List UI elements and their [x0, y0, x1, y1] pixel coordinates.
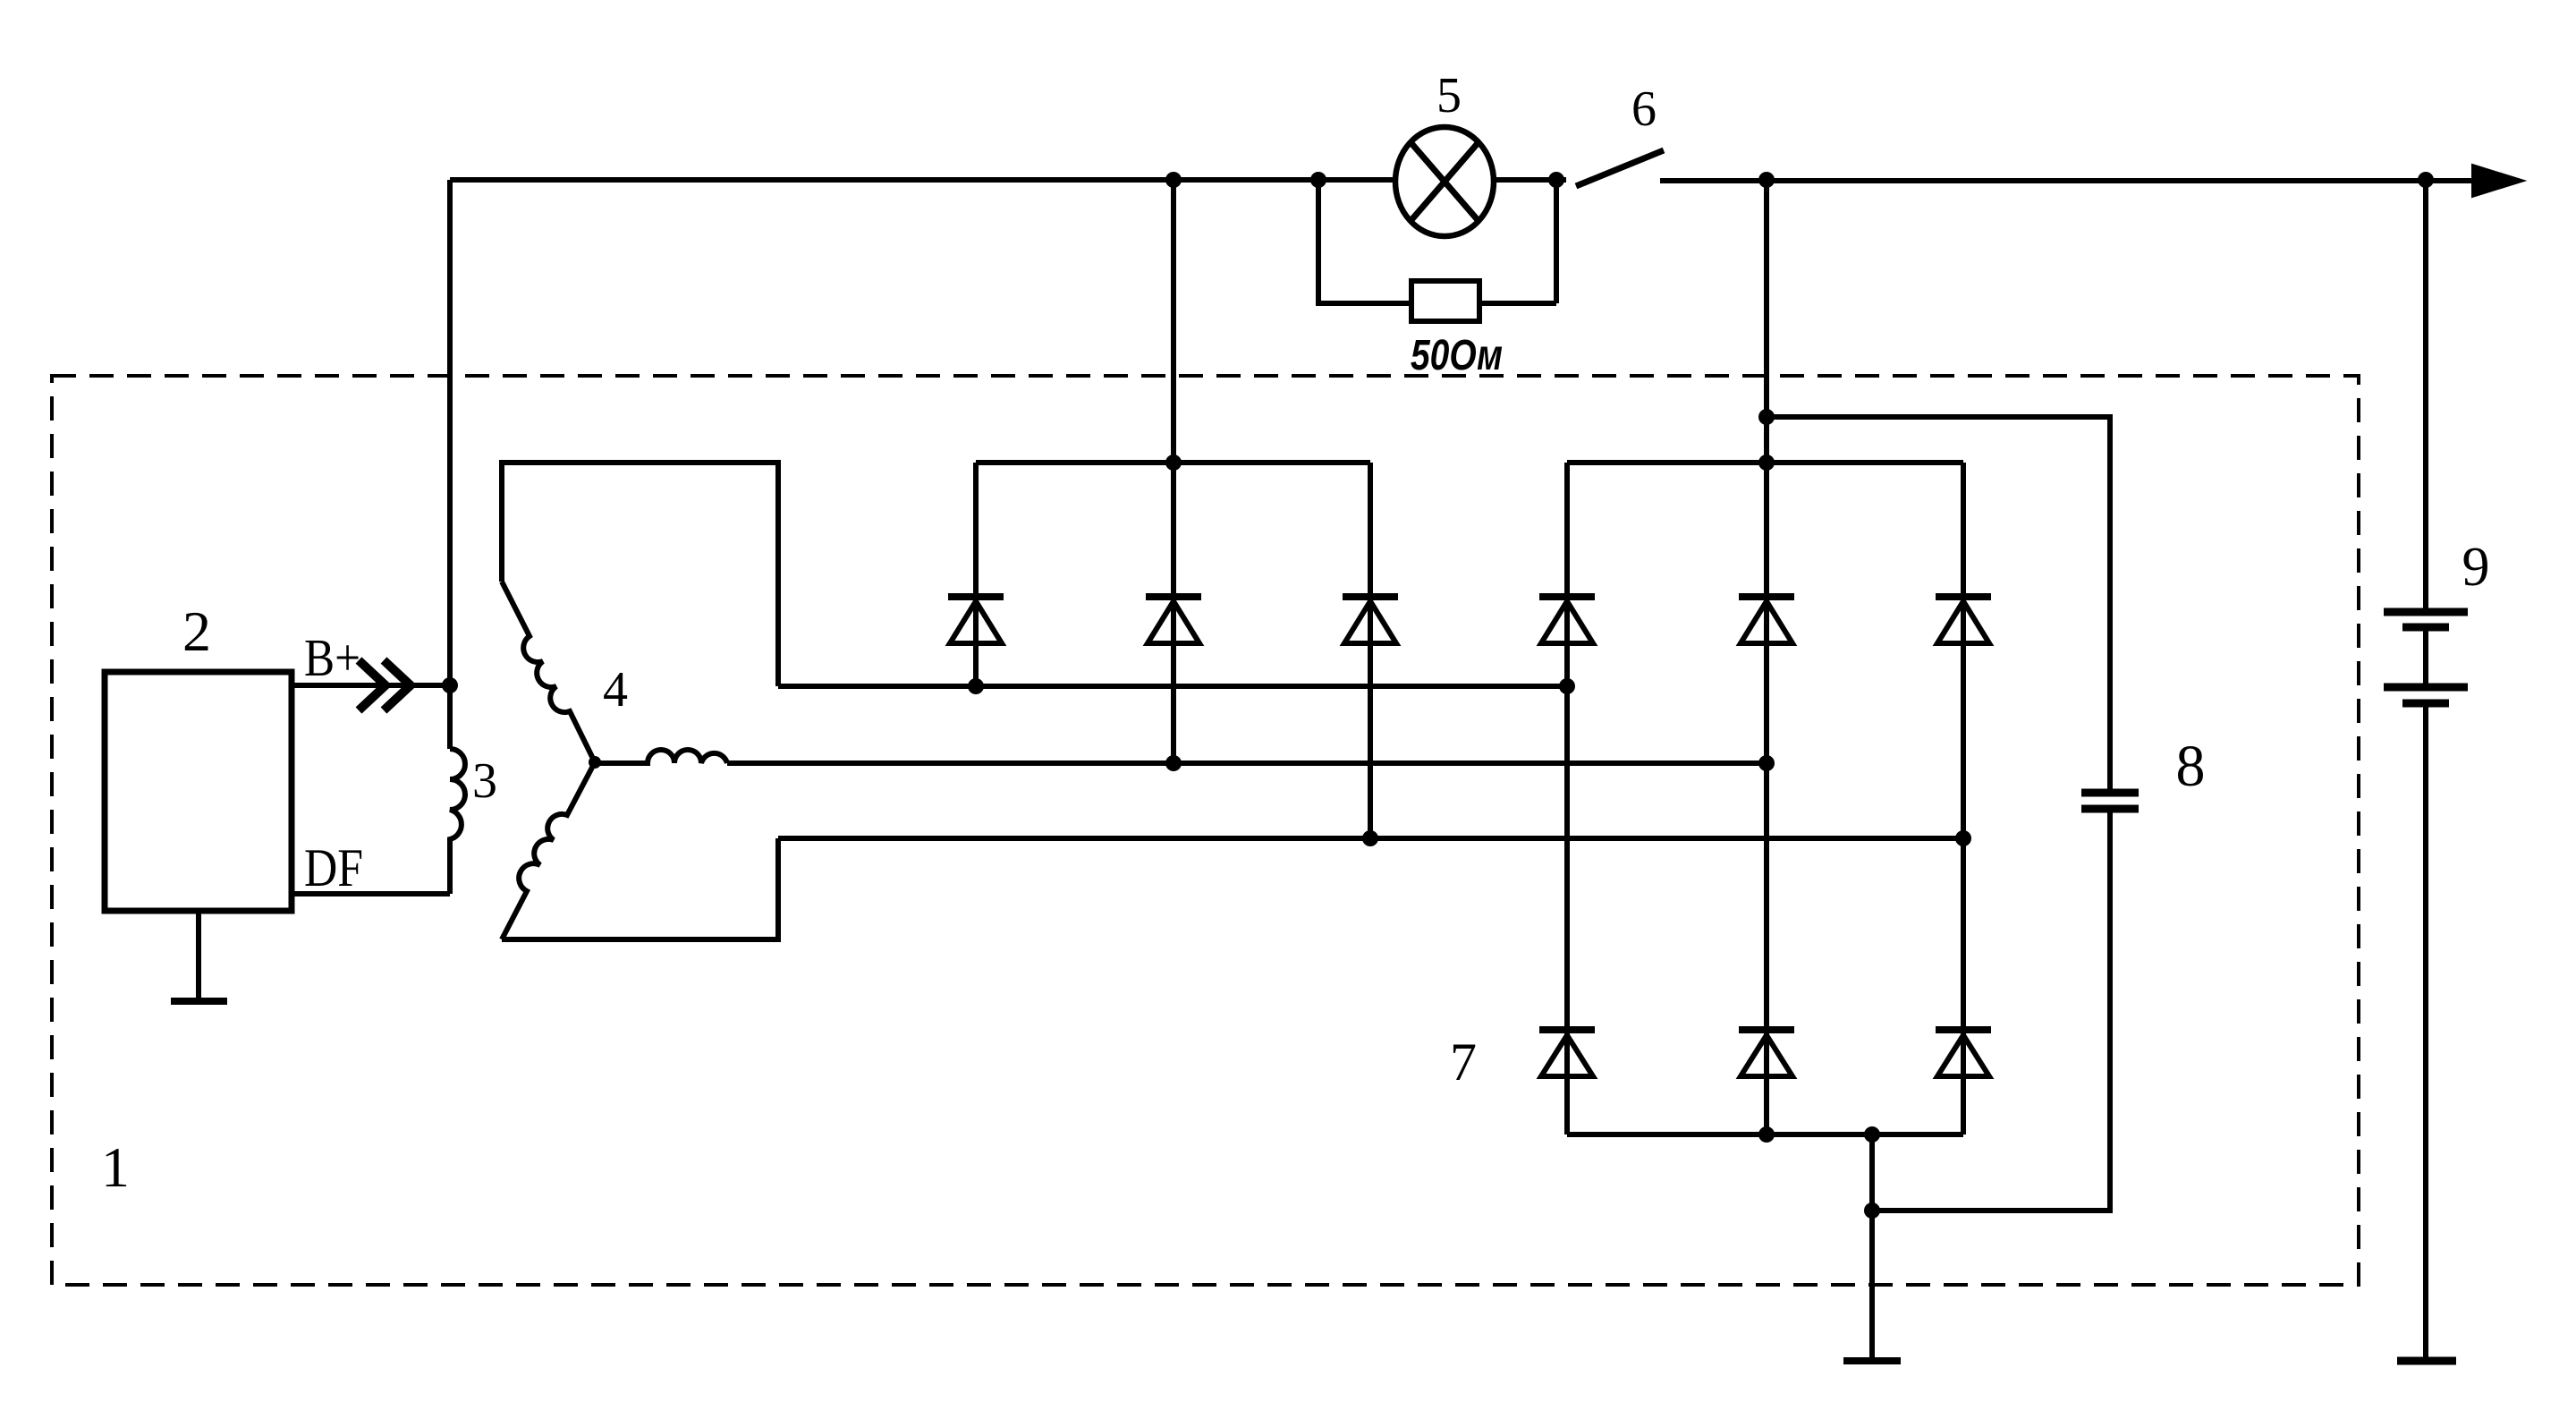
- svg-text:9: 9: [2462, 537, 2490, 598]
- svg-text:8: 8: [2176, 734, 2206, 799]
- svg-text:7: 7: [1450, 1032, 1477, 1092]
- svg-text:50Ом: 50Ом: [1411, 332, 1503, 379]
- svg-text:1: 1: [101, 1135, 130, 1199]
- svg-text:5: 5: [1436, 68, 1462, 123]
- svg-text:B+: B+: [304, 628, 360, 687]
- svg-text:4: 4: [603, 662, 628, 718]
- svg-text:3: 3: [472, 753, 497, 809]
- svg-text:6: 6: [1631, 81, 1657, 137]
- svg-text:DF: DF: [304, 838, 363, 897]
- svg-text:2: 2: [182, 599, 211, 663]
